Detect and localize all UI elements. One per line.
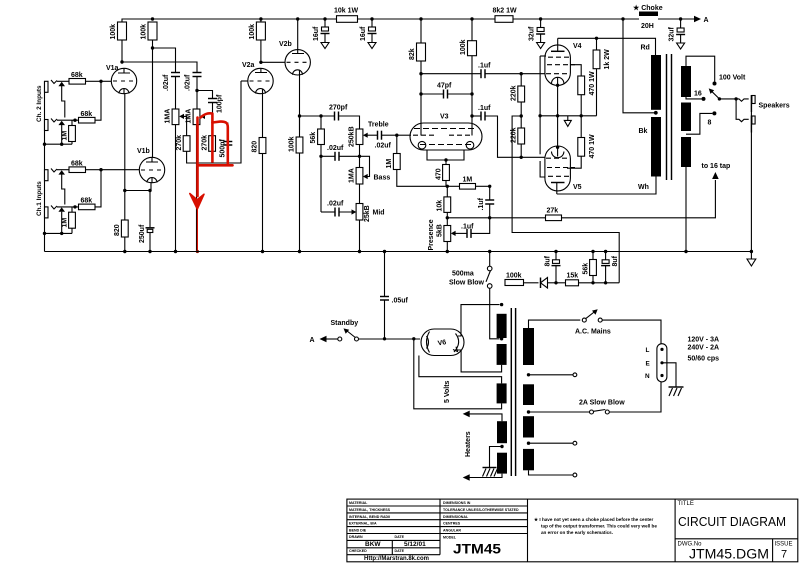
svg-text:250uf: 250uf — [139, 224, 146, 243]
wire V1b cathode to shared node — [125, 183, 151, 191]
svg-text:500ma: 500ma — [452, 271, 474, 278]
output transformer secondary winding S3 — [681, 137, 691, 167]
junction dot 56k top — [319, 114, 322, 117]
red highlight: wiper to 270k branch — [201, 113, 213, 161]
svg-text:CIRCUIT DIAGRAM: CIRCUIT DIAGRAM — [678, 514, 786, 529]
red arrowhead — [190, 194, 204, 210]
svg-text:BKW: BKW — [365, 541, 381, 548]
ground arrow (cathode row) — [564, 116, 571, 127]
svg-text:Heaters: Heaters — [465, 431, 472, 457]
junction dot selector pivot — [718, 97, 721, 100]
capacitor .1uf (tail bypass) — [478, 186, 494, 218]
svg-text:1MA: 1MA — [165, 109, 172, 124]
junction dot V2a plate / V2b grid — [259, 61, 262, 64]
red highlight: down to ground with arrow — [196, 118, 199, 197]
resistor 470 1W (V4 screen) — [571, 65, 597, 116]
capacitor .02uf (bass) — [327, 145, 360, 161]
wire shorting contacts ch1 — [62, 175, 65, 205]
svg-text:.05uf: .05uf — [392, 298, 409, 305]
svg-text:.02uf: .02uf — [327, 145, 344, 152]
junction dot V4 cathode — [556, 84, 559, 87]
svg-text:E: E — [646, 361, 651, 368]
svg-text:EXTERNAL, B/A: EXTERNAL, B/A — [349, 522, 377, 526]
wire tap1 to terminal — [529, 374, 574, 376]
svg-text:5kB: 5kB — [437, 224, 444, 237]
output transformer secondary winding S1 — [681, 66, 691, 97]
svg-text:BEND DIE: BEND DIE — [349, 529, 367, 533]
resistor 820 (V1 cathode) — [114, 220, 128, 252]
svg-text:270pf: 270pf — [329, 105, 348, 112]
red thin line to bus — [196, 206, 198, 252]
svg-text:★ I have not yet seen a choke: ★ I have not yet seen a choke placed bef… — [534, 517, 653, 522]
selector switch arm — [709, 88, 720, 99]
svg-text:V1b: V1b — [137, 148, 150, 155]
mains transformer heater winding (top) — [497, 421, 507, 443]
resistor 68k (jack2) — [79, 81, 102, 123]
contact arrow jack1 — [58, 82, 65, 86]
resistor 100k (V1b plate) — [141, 22, 158, 48]
svg-text:270k: 270k — [202, 135, 209, 151]
resistor 10k 1W (dropper) — [334, 8, 495, 23]
resistor 220k (V4 grid leak) — [511, 74, 525, 116]
contact arrow jack3 — [58, 170, 65, 174]
pentode V4 (KT66) — [545, 38, 582, 85]
junction cathode tail — [444, 158, 447, 161]
wire V4 grid — [521, 73, 545, 75]
svg-text:120V - 3A: 120V - 3A — [688, 337, 720, 344]
wire V1a cathode down — [124, 94, 126, 220]
svg-text:MATERIAL: MATERIAL — [349, 501, 368, 505]
junction dot bias node — [520, 114, 523, 117]
svg-text:8uf: 8uf — [545, 255, 552, 266]
mains transformer HT winding (bottom) — [497, 344, 507, 365]
svg-text:INTERNAL, BEND RADII: INTERNAL, BEND RADII — [349, 515, 390, 519]
capacitor .1uf (presence) — [455, 218, 490, 238]
svg-text:470 1W: 470 1W — [589, 71, 596, 96]
svg-text:100k: 100k — [289, 136, 296, 152]
arrow to 16 tap — [702, 163, 731, 179]
junction dot heater CT — [500, 445, 503, 448]
resistor 27k (NFB) — [490, 180, 716, 221]
svg-text:V1a: V1a — [106, 65, 119, 72]
junction dot bus at V2a plate resistor — [259, 17, 262, 20]
capacitor 500pf — [220, 123, 233, 164]
choke 20H — [633, 4, 694, 30]
resistor 10k — [437, 186, 451, 218]
potentiometer 1MA (Bass) — [349, 156, 391, 203]
mains transformer primary winding B — [523, 384, 534, 405]
wire jack2 tip to 68k — [57, 119, 79, 121]
wire V5 grid — [521, 156, 545, 158]
resistor 470 1W (V5 screen) — [567, 116, 596, 168]
jack J4 (Ch.1 input 2) — [45, 206, 58, 218]
svg-text:DATE: DATE — [395, 549, 405, 553]
junction dot 56k bottom — [591, 281, 594, 284]
svg-text:220k: 220k — [511, 127, 518, 143]
wire jack3 tip to 68k — [57, 169, 69, 171]
capacitor 8uf (bias 1) — [545, 252, 561, 283]
svg-text:V3: V3 — [440, 114, 449, 121]
svg-text:100k: 100k — [110, 24, 117, 40]
svg-text:CHECKED: CHECKED — [349, 549, 367, 553]
junction dot ch2 ground — [60, 143, 63, 146]
svg-text:Bk: Bk — [639, 128, 648, 135]
svg-text:8: 8 — [708, 120, 712, 127]
svg-text:470 1W: 470 1W — [589, 134, 596, 159]
svg-text:8k2 1W: 8k2 1W — [493, 8, 518, 15]
wire V1b plate node — [151, 46, 154, 49]
junction dot ch1 ground — [60, 232, 63, 235]
resistor 220k (V5 grid leak) — [511, 116, 525, 157]
svg-text:.02uf: .02uf — [375, 143, 392, 150]
wire tone feed to 270pf — [300, 116, 335, 130]
junction dot 5V return — [412, 337, 415, 340]
svg-text:56k: 56k — [310, 132, 317, 144]
wire B+ down to center tap — [623, 19, 656, 113]
svg-text:1MA: 1MA — [186, 109, 193, 124]
chassis ground (mains earth) — [669, 387, 684, 396]
resistor 68k (jack4) — [79, 170, 102, 210]
svg-text:MATERIAL, THICKNESS: MATERIAL, THICKNESS — [349, 508, 391, 512]
svg-text:1M: 1M — [386, 159, 393, 169]
svg-text:.1uf: .1uf — [478, 197, 485, 210]
svg-text:Ch.1 Inputs: Ch.1 Inputs — [36, 181, 43, 216]
svg-text:47pf: 47pf — [437, 83, 452, 90]
junction dot 8uf-1 bottom — [554, 281, 557, 284]
junction dot row cross — [556, 114, 559, 117]
resistor 56k (bias bleed) — [583, 252, 597, 283]
mains transformer primary winding C — [523, 416, 534, 437]
junction dot tone feed — [298, 114, 301, 117]
wire screen/cathode row — [540, 56, 596, 116]
junction dot presence top — [446, 216, 449, 219]
red highlight: mixing node bottom — [198, 164, 233, 167]
wire V1a plate to .02uf — [122, 62, 197, 72]
svg-text:820: 820 — [114, 224, 121, 236]
capacitor .02uf (mid) — [321, 201, 356, 217]
arrow node A (standby) — [310, 336, 338, 344]
svg-text:.02uf: .02uf — [185, 74, 192, 91]
capacitor .1uf (to V5) — [472, 105, 521, 157]
svg-text:10k: 10k — [437, 200, 444, 212]
junction dot 47pf left — [419, 92, 422, 95]
node V1a plate junction — [120, 60, 123, 63]
junction dot row left — [538, 114, 541, 117]
mains transformer heater winding (bottom) — [497, 453, 507, 474]
svg-text:10k 1W: 10k 1W — [334, 8, 359, 15]
svg-text:DATE: DATE — [395, 535, 405, 539]
wire 16 ohm tap — [686, 97, 702, 99]
junction dots on ground bus — [123, 250, 126, 253]
wire 1M top stub ch1 — [71, 207, 73, 212]
junction dot cathode node — [123, 189, 126, 192]
junction dot 82k top on bus — [419, 17, 422, 20]
svg-text:tap of the output transformer.: tap of the output transformer. This coul… — [541, 524, 657, 529]
wire primary top to AC switch — [529, 320, 581, 328]
svg-text:220k: 220k — [511, 85, 518, 101]
switch A.C. Mains — [575, 309, 611, 335]
twin-triode V3 (phase inverter) — [410, 114, 482, 151]
wire NFB row — [447, 217, 489, 219]
svg-text:TITLE: TITLE — [678, 501, 694, 507]
contact arrow jack4 — [58, 207, 65, 211]
wire jack2 arrow down to ground row — [61, 125, 63, 144]
junction dot V4 grid — [520, 72, 523, 75]
resistor 270k (mixer 1) — [176, 81, 241, 163]
speaker jack 1 — [736, 95, 755, 112]
junction dot NFB — [488, 216, 491, 219]
junction dot .1uf tap left — [419, 72, 422, 75]
resistor 1M (Ch.2) — [62, 126, 76, 145]
mains transformer primary winding A — [523, 328, 534, 365]
junction dot 32uf-2 — [679, 17, 682, 20]
resistor 1M (Ch.1) — [62, 212, 76, 233]
title block small texts col1 — [349, 501, 405, 553]
mains transformer 5V winding — [497, 383, 507, 403]
svg-text:V6: V6 — [437, 339, 447, 347]
capacitor 250uf (cathode bypass) — [139, 224, 155, 251]
junction dot 250uf tap — [148, 189, 151, 192]
svg-text:1MA: 1MA — [349, 168, 356, 183]
svg-text:2A Slow Blow: 2A Slow Blow — [579, 400, 625, 407]
resistor 68k (V1a grid, jack1) — [69, 72, 101, 84]
junction dot bus at V2b plate — [296, 17, 299, 20]
svg-text:27k: 27k — [547, 208, 559, 215]
wire standby to rectifier — [359, 338, 421, 340]
wire jack4 arrow down to ground row — [61, 212, 63, 234]
svg-text:★ Choke: ★ Choke — [633, 4, 663, 12]
potentiometer 25kB (Mid) — [352, 204, 385, 252]
svg-text:240V - 2A: 240V - 2A — [688, 345, 720, 352]
terminal dot 16 — [702, 97, 706, 101]
potentiometer 250kB (Treble) — [349, 122, 389, 157]
svg-text:8uf: 8uf — [612, 255, 619, 266]
svg-text:Wh: Wh — [638, 184, 649, 191]
svg-text:32uf: 32uf — [529, 26, 536, 41]
capacitor .02uf (V1a out) — [185, 73, 202, 92]
svg-text:56k: 56k — [583, 263, 590, 275]
wire bias feed down — [512, 116, 619, 283]
svg-text:L: L — [646, 347, 650, 354]
svg-text:16uf: 16uf — [360, 26, 367, 41]
svg-text:500pf: 500pf — [220, 139, 227, 158]
capacitor .1uf (to V4) — [421, 63, 521, 79]
wire 5V bottom to V6 filament return — [414, 339, 502, 409]
junction dot 1k2W top — [595, 37, 598, 40]
capacitor 16uf (filter 2) — [360, 19, 377, 49]
svg-text:16: 16 — [694, 91, 702, 98]
svg-text:32uf: 32uf — [669, 26, 676, 41]
svg-text:V5: V5 — [573, 184, 582, 191]
capacitor 100pf (bright cap) — [208, 94, 224, 113]
mains transformer laminations — [511, 308, 515, 476]
output transformer secondary winding S2 — [681, 103, 691, 132]
terminal circle bottom — [573, 473, 577, 477]
arrow node A (top) — [694, 16, 709, 24]
svg-text:100k: 100k — [460, 39, 467, 55]
mains transformer HT winding (top) — [497, 314, 507, 338]
svg-text:1M: 1M — [62, 131, 69, 141]
output transformer primary winding (bottom half) — [651, 117, 661, 177]
svg-text:MODEL: MODEL — [443, 536, 457, 540]
wire earth pin to ground — [664, 363, 677, 387]
svg-text:.1uf: .1uf — [461, 224, 474, 231]
wire secondary top to 100V terminal — [686, 56, 715, 81]
svg-text:to 16 tap: to 16 tap — [702, 163, 731, 170]
red highlight: branch to 500pf — [212, 122, 227, 164]
output transformer laminations — [667, 54, 672, 180]
wire selector to speakers — [719, 98, 736, 100]
wire V2b cathode down — [299, 75, 301, 130]
svg-text:50/60 cps: 50/60 cps — [688, 356, 720, 363]
title block small texts col2 — [443, 501, 519, 540]
ground arrow (speaker) — [747, 259, 756, 266]
wire V2a cathode to 820 — [262, 94, 264, 138]
resistor 100k (V2a plate) — [249, 19, 265, 62]
wire jack4 tip to 68k — [57, 206, 79, 208]
junction dot bus at 152.5 — [151, 17, 154, 20]
capacitor .02uf (treble out) — [371, 131, 397, 150]
plug pin E — [660, 361, 663, 364]
triode V1a — [106, 65, 137, 94]
svg-text:ANGULAR: ANGULAR — [443, 529, 461, 533]
svg-text:270k: 270k — [176, 135, 183, 151]
capacitor 270pf (treble) — [329, 105, 360, 130]
wire V1b plate to .02uf — [153, 48, 176, 72]
svg-text:Speakers: Speakers — [759, 103, 790, 110]
capacitor 47pf — [421, 83, 472, 99]
junction dot tap A-B — [527, 373, 530, 376]
wire 8 ohm tap — [686, 113, 712, 134]
wire screen row into V4 — [540, 55, 546, 57]
svg-text:Treble: Treble — [368, 122, 389, 129]
terminal circle tap3 — [573, 441, 577, 445]
triode V2a — [242, 62, 273, 94]
svg-text:an error on the early schemati: an error on the early schematics. — [541, 530, 613, 535]
wire V2a plate to V2b grid — [261, 61, 285, 63]
wire main ground bus — [45, 251, 752, 253]
svg-text:Bass: Bass — [374, 175, 391, 182]
bias supply: resistor 100k — [505, 273, 539, 286]
capacitor 32uf (filter 1) — [529, 19, 546, 49]
svg-text:.02uf: .02uf — [163, 74, 170, 91]
junction dot HT center tap — [500, 337, 503, 340]
resistor 68k (V1b grid, jack3) — [69, 161, 101, 173]
capacitor 16uf (filter) — [313, 19, 330, 49]
wire treble out to V3 grid — [397, 134, 411, 136]
junction dot V5 grid — [520, 156, 523, 159]
wire to 100pf — [197, 91, 213, 99]
svg-text:68k: 68k — [81, 111, 93, 118]
capacitor 32uf (filter 2) — [669, 19, 686, 49]
wire ground row ch1 — [45, 232, 73, 234]
junction dot 8uf-2 bottom — [604, 281, 607, 284]
wire ground row ch2 — [45, 143, 73, 145]
triode V1b — [137, 148, 165, 183]
svg-text:100k: 100k — [249, 24, 256, 40]
wire 5V top to V6 filament — [419, 356, 502, 384]
junction dot 47pf right — [470, 92, 473, 95]
wire secondary bottom to ground bus — [685, 167, 687, 252]
junction dot .1uf tap right — [470, 114, 473, 117]
svg-text:Mid: Mid — [373, 210, 385, 217]
junction dot 100k top on bus — [470, 17, 473, 20]
fuse 500ma Slow Blow — [449, 252, 500, 339]
wire shorting contacts ch2 — [62, 86, 65, 118]
svg-text:1k 2W: 1k 2W — [604, 49, 611, 70]
svg-text:68k: 68k — [81, 198, 93, 205]
junction dot 32uf-1 — [539, 17, 542, 20]
resistor 100k (V3 plate load R) — [460, 19, 477, 136]
node: ground bus left vertical — [44, 81, 46, 251]
note about choke — [534, 517, 657, 535]
jack J2 (Ch.2 input 2) — [45, 119, 58, 131]
svg-text:ISSUE: ISSUE — [775, 542, 793, 548]
junction dot tap B-C — [527, 410, 530, 413]
wire V4 plate line — [558, 38, 656, 55]
contact arrow jack2 — [58, 121, 65, 125]
wire heater CT to ground — [490, 447, 503, 468]
plug pin N — [660, 374, 663, 377]
wire 56k down to mid cap — [320, 156, 322, 212]
wire heater top arrow — [463, 411, 502, 422]
wire V3 cathodes joined — [427, 150, 464, 160]
svg-text:DRAWN: DRAWN — [349, 535, 363, 539]
svg-text:5/12/01: 5/12/01 — [404, 541, 426, 548]
node junction V1b grid — [99, 168, 102, 171]
junction dot row 470s — [580, 114, 583, 117]
wire 1M top stub ch2 — [71, 120, 73, 125]
resistor 1k 2W — [593, 38, 611, 116]
resistor 100k (V1a plate) — [110, 22, 127, 62]
svg-text:100k: 100k — [506, 273, 522, 280]
svg-text:V2a: V2a — [242, 62, 255, 69]
wire V1b plate drop — [152, 48, 154, 157]
svg-text:470: 470 — [436, 168, 443, 180]
junction dot 16uf-2 — [370, 17, 373, 20]
resistor 470 (V3 cathode) — [436, 160, 450, 186]
svg-text:250kB: 250kB — [349, 126, 356, 147]
svg-text:Slow Blow: Slow Blow — [449, 280, 485, 287]
terminal dot 8 — [712, 111, 716, 115]
wire 250uf drop — [149, 191, 151, 228]
wire V5 plate line (Wh) — [557, 177, 656, 195]
resistor 82k (V3 plate load L) — [409, 19, 426, 136]
svg-text:20H: 20H — [641, 23, 654, 30]
wire heater bottom arrow — [463, 474, 502, 481]
svg-text:DIMENSIONS IN: DIMENSIONS IN — [443, 501, 471, 505]
junction dot HT top — [500, 303, 503, 306]
svg-text:A: A — [310, 337, 315, 344]
svg-text:CENTRES: CENTRES — [443, 522, 461, 526]
svg-text:JTM45.DGM: JTM45.DGM — [689, 547, 769, 562]
junction dot 56k/cap row — [319, 155, 322, 158]
svg-text:820: 820 — [252, 141, 259, 153]
wire .02uf to pot2 — [196, 91, 198, 110]
bias diode — [541, 278, 557, 289]
wire grid to V1b — [101, 169, 139, 171]
jack J1 (Ch.2 input 1) — [45, 80, 58, 92]
wire AC switch to plug L — [602, 320, 661, 344]
svg-text:.1uf: .1uf — [478, 105, 491, 112]
svg-text:Standby: Standby — [331, 320, 359, 327]
wire V2a grid — [241, 80, 248, 82]
svg-text:16uf: 16uf — [313, 26, 320, 41]
svg-text:Http://Marstran.8k.com: Http://Marstran.8k.com — [364, 556, 429, 562]
wire jack1 tip to 68k — [57, 80, 69, 82]
junction dot speaker tee — [734, 97, 737, 100]
svg-text:Presence: Presence — [428, 219, 435, 250]
